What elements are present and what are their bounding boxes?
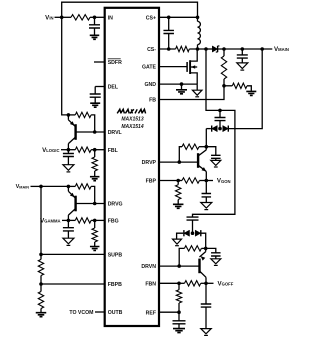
svg-text:CS-: CS- bbox=[147, 47, 156, 53]
node VMAIN left junction bbox=[39, 185, 43, 189]
wire CS+ line bbox=[159, 16, 198, 18]
wire diode row VGON bbox=[206, 128, 211, 130]
capacitor VGOFF output bbox=[205, 283, 207, 304]
resistor Q3 base bbox=[179, 147, 182, 162]
node FBN junction bbox=[177, 282, 181, 286]
svg-text:VGON: VGON bbox=[217, 178, 231, 185]
node inductor top junction bbox=[196, 15, 200, 19]
resistor current-sense bbox=[176, 46, 190, 51]
diode D2 VGON (to output) bbox=[212, 126, 218, 132]
transistor Q1 PNP bbox=[74, 124, 76, 140]
resistor VIN input bbox=[62, 16, 71, 18]
resistor FB upper bbox=[223, 49, 225, 56]
node GND junction bbox=[180, 82, 184, 86]
resistor Q4 base bbox=[179, 248, 184, 266]
resistor FB lower to ground bbox=[224, 85, 232, 87]
ground VGON pump cap (triangle) bbox=[211, 160, 221, 165]
node FB divider top junction bbox=[222, 47, 226, 51]
node FBP junction bbox=[176, 179, 180, 183]
ground VMAIN cap (triangle) bbox=[237, 63, 248, 69]
svg-text:DRVL: DRVL bbox=[108, 130, 123, 136]
svg-text:MAX1513: MAX1513 bbox=[121, 117, 143, 123]
node VGAMMA bbox=[67, 219, 71, 223]
ground VGOFF pump cap (triangle) bbox=[211, 259, 221, 264]
svg-text:DRVN: DRVN bbox=[141, 264, 156, 270]
ground VGON cap (triangle) bbox=[201, 203, 212, 209]
svg-text:VMAIN: VMAIN bbox=[16, 184, 30, 190]
node pump feed junction bbox=[204, 47, 208, 51]
ground DEL cap bbox=[90, 103, 100, 107]
resistor FBL upper bbox=[68, 149, 75, 151]
svg-text:FBL: FBL bbox=[108, 148, 119, 154]
wire GND line bbox=[159, 83, 197, 85]
svg-text:VLOGIC: VLOGIC bbox=[42, 147, 59, 154]
node FBG junction bbox=[93, 219, 97, 223]
wire VMAIN down to SUPB bbox=[40, 186, 42, 254]
node VLOGIC bbox=[67, 148, 71, 152]
capacitor C flying VGOFF bbox=[187, 217, 199, 220]
wire FB pin trace bbox=[159, 86, 224, 100]
wire REF line bbox=[159, 311, 179, 313]
node CS- cap junction bbox=[167, 47, 171, 51]
svg-text:SDFR: SDFR bbox=[108, 60, 122, 66]
capacitor VGOFF pump node bbox=[206, 248, 216, 252]
wire DRVN line bbox=[159, 265, 200, 267]
wire GATE line bbox=[159, 66, 187, 68]
node flying cap 1 junction bbox=[218, 109, 222, 113]
svg-text:VGOFF: VGOFF bbox=[218, 280, 234, 287]
wire VIN to node bbox=[55, 16, 62, 18]
ground MOSFET source (triangle) bbox=[192, 90, 202, 95]
resistor FBG upper bbox=[68, 219, 75, 221]
ground FB divider bbox=[246, 91, 256, 95]
svg-text:VGAMMA: VGAMMA bbox=[40, 218, 60, 225]
node FBL junction bbox=[93, 148, 97, 152]
diode D1 main rectifier bbox=[206, 48, 212, 50]
ground FBPB divider bbox=[36, 313, 47, 317]
ground REF cap (hatched) bbox=[173, 329, 185, 333]
svg-text:DRVG: DRVG bbox=[108, 202, 123, 208]
ground FBL divider bbox=[90, 177, 100, 181]
svg-text:GATE: GATE bbox=[142, 65, 157, 71]
wire top rail from VIN over IC to inductor top bbox=[62, 2, 198, 17]
svg-text:FBN: FBN bbox=[145, 281, 156, 287]
resistor FBN upper bbox=[179, 282, 185, 284]
node CS+ cap junction bbox=[167, 15, 171, 19]
capacitor DEL bbox=[94, 87, 96, 95]
wire DEL stub bbox=[95, 86, 105, 88]
resistor Q2 base-emitter bbox=[68, 185, 75, 187]
capacitor VGAMMA output bbox=[67, 220, 69, 227]
resistor FBP upper bbox=[178, 180, 182, 182]
wire CS- line bbox=[159, 48, 176, 50]
diode D4 VGOFF (to ground) bbox=[184, 230, 190, 236]
svg-text:DRVP: DRVP bbox=[142, 160, 157, 166]
diode D3 VGON (from VMAIN) bbox=[223, 126, 229, 132]
node SUPB junction bbox=[39, 253, 43, 257]
svg-text:VIN: VIN bbox=[45, 14, 53, 21]
svg-text:REF: REF bbox=[146, 310, 156, 316]
ground IN bypass bbox=[90, 35, 100, 39]
capacitor VGON pump node bbox=[206, 147, 216, 156]
node REF junction bbox=[177, 310, 181, 314]
node VGON pump feed junction bbox=[260, 47, 264, 51]
svg-text:DEL: DEL bbox=[108, 85, 119, 91]
node VGON pump junction bbox=[218, 127, 222, 131]
ground VLOGIC cap (triangle) bbox=[63, 165, 74, 171]
capacitor VGON output bbox=[205, 181, 207, 194]
node VGOFF pump junction bbox=[191, 231, 195, 235]
node Q2 emitter junction bbox=[67, 185, 71, 189]
node X1 junction bbox=[205, 145, 209, 149]
capacitor C flying VGON bbox=[219, 110, 221, 117]
capacitor IN bypass bbox=[94, 17, 96, 25]
node X2 junction bbox=[204, 247, 208, 251]
resistor FBG lower bbox=[94, 220, 96, 228]
ground FBP divider bbox=[173, 204, 184, 208]
svg-text:FBPB: FBPB bbox=[108, 282, 122, 288]
svg-text:SUPB: SUPB bbox=[108, 253, 123, 259]
diode D5 VGOFF (to transistor) bbox=[195, 230, 201, 236]
wire LX feed to flying caps bbox=[193, 49, 235, 217]
node DRVL junction bbox=[93, 130, 97, 134]
resistor FBPB lower bbox=[40, 284, 42, 292]
node FBPB junction bbox=[39, 282, 43, 286]
resistor FBL lower bbox=[94, 150, 96, 157]
resistor FBPB upper bbox=[40, 254, 42, 259]
node VIN junction bbox=[60, 15, 64, 19]
U1 MAXIM logo bbox=[117, 109, 145, 113]
wire DRVG base line bbox=[76, 203, 105, 205]
node LX junction bbox=[196, 47, 200, 51]
IC U1 MAX1513/MAX1514 body bbox=[105, 8, 159, 326]
ground VGOFF cap (triangle) bbox=[201, 329, 212, 334]
wire FBN line bbox=[159, 282, 179, 284]
node VMAIN cap junction bbox=[241, 47, 245, 51]
wire OUTB stub bbox=[95, 311, 105, 313]
wire VGON pump output down to transistor node bbox=[205, 129, 207, 147]
svg-text:OUTB: OUTB bbox=[108, 310, 123, 316]
node DRVP junction bbox=[178, 160, 182, 164]
transistor Q2 PNP bbox=[74, 196, 76, 212]
wire VMAIN to Q2 emitter bbox=[41, 185, 68, 187]
wire DRVP line bbox=[159, 161, 198, 163]
capacitor REF bypass bbox=[178, 312, 180, 321]
capacitor VLOGIC output bbox=[67, 150, 69, 154]
resistor FBP lower bbox=[177, 181, 179, 185]
svg-text:GND: GND bbox=[144, 82, 156, 88]
resistor Q1 base-emitter bbox=[68, 114, 75, 116]
wire DRVL base line bbox=[76, 131, 105, 133]
wire diode row VGOFF left end to ground bbox=[177, 233, 184, 239]
node DRVN junction bbox=[177, 264, 181, 268]
node VGOFF output bbox=[204, 282, 208, 286]
transistor Q4 PNP bbox=[198, 259, 200, 274]
svg-text:MAX1514: MAX1514 bbox=[121, 124, 143, 130]
wire FBP line bbox=[159, 180, 178, 182]
wire VIN rail down to Q1 emitter bbox=[62, 17, 69, 115]
transistor N1 n-channel MOSFET bbox=[186, 62, 188, 72]
capacitor current-sense RC bbox=[168, 17, 170, 30]
svg-text:FB: FB bbox=[149, 98, 156, 104]
resistor FBN lower bbox=[178, 283, 180, 290]
node IN pin junction bbox=[93, 15, 97, 19]
ground VGAMMA cap (triangle) bbox=[63, 238, 74, 244]
inductor L1 bbox=[198, 21, 201, 44]
capacitor VMAIN output bbox=[241, 49, 243, 55]
ground GND pin (hatched) bbox=[176, 90, 187, 94]
node Q1 emitter junction bbox=[67, 113, 71, 117]
svg-text:IN: IN bbox=[108, 15, 113, 21]
svg-text:CS+: CS+ bbox=[146, 15, 156, 21]
svg-text:FBP: FBP bbox=[146, 179, 157, 185]
node DRVG junction bbox=[93, 202, 97, 206]
ground FBG divider bbox=[90, 247, 100, 251]
svg-text:FBG: FBG bbox=[108, 219, 119, 225]
transistor Q3 NPN bbox=[197, 153, 199, 168]
svg-text:TO VCOM: TO VCOM bbox=[69, 310, 93, 316]
wire FBPB line bbox=[41, 283, 105, 285]
wire SDFR stub bbox=[94, 61, 105, 63]
ground VGOFF pump (triangle) bbox=[173, 239, 182, 244]
node VGON output bbox=[205, 179, 209, 183]
node FB divider mid junction bbox=[222, 84, 226, 88]
wire SUPB line bbox=[41, 253, 105, 255]
svg-text:VMAIN: VMAIN bbox=[274, 46, 289, 53]
